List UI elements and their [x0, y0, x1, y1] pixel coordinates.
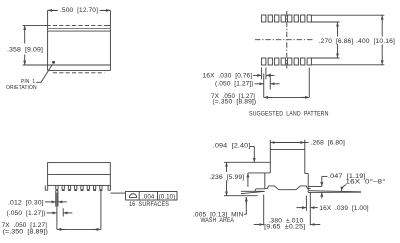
- svg-text:.400 [10.16]: .400 [10.16]: [356, 38, 395, 45]
- svg-text:.094 [2.40]: .094 [2.40]: [213, 142, 251, 149]
- svg-text:ORIETATION: ORIETATION: [6, 85, 37, 91]
- svg-text:.500 [12.70]: .500 [12.70]: [60, 7, 98, 14]
- svg-text:16 SURFACES: 16 SURFACES: [129, 201, 169, 208]
- svg-text:(=.350 [8.89]): (=.350 [8.89]): [3, 229, 48, 236]
- svg-text:SUGGESTED LAND PATTERN: SUGGESTED LAND PATTERN: [249, 111, 329, 118]
- svg-text:(0.10): (0.10): [159, 193, 176, 200]
- svg-text:.236 [5.99]: .236 [5.99]: [209, 174, 244, 181]
- svg-text:16X .030 [0.76]: 16X .030 [0.76]: [203, 72, 253, 79]
- svg-text:.358 [9.09]: .358 [9.09]: [7, 46, 43, 53]
- svg-text:.270 [6.86]: .270 [6.86]: [319, 38, 354, 45]
- svg-text:WASH AREA: WASH AREA: [201, 217, 235, 224]
- svg-text:(=.350 [8.89]): (=.350 [8.89]): [212, 99, 256, 106]
- svg-text:.268 [6.80]: .268 [6.80]: [311, 140, 345, 147]
- svg-text:(.050 [1.27]): (.050 [1.27]): [7, 210, 46, 217]
- svg-text:.004: .004: [142, 193, 155, 200]
- svg-text:16X 0°–8°: 16X 0°–8°: [346, 179, 387, 186]
- svg-text:[9.65 ±0.25]: [9.65 ±0.25]: [264, 224, 305, 231]
- svg-text:.012 [0.30]: .012 [0.30]: [8, 199, 44, 206]
- svg-text:(.050 [1.27]): (.050 [1.27]): [215, 81, 254, 88]
- svg-text:PIN 1: PIN 1: [21, 79, 35, 85]
- svg-text:16X .039 [1.00]: 16X .039 [1.00]: [319, 205, 368, 212]
